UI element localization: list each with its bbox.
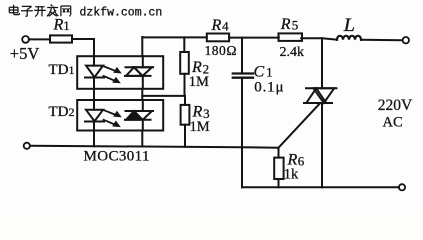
wire triac branch bbox=[321, 38, 323, 88]
wire bbox=[93, 39, 95, 56]
TD1 output triac bbox=[125, 56, 153, 89]
svg-text:+5V: +5V bbox=[10, 44, 40, 63]
resistor R2 bbox=[180, 52, 189, 74]
svg-text:220V: 220V bbox=[378, 97, 413, 114]
wire bbox=[301, 38, 337, 40]
resistor R1 bbox=[50, 35, 72, 42]
svg-text:R4: R4 bbox=[211, 17, 230, 34]
wire R6 top lead bbox=[278, 148, 280, 158]
resistor R4 bbox=[207, 34, 229, 42]
svg-text:180Ω: 180Ω bbox=[205, 43, 238, 58]
svg-text:R5: R5 bbox=[280, 16, 298, 33]
svg-text:MOC3011: MOC3011 bbox=[84, 149, 150, 165]
terminal AC bottom bbox=[399, 184, 405, 190]
wire bottom rail bbox=[242, 186, 399, 188]
TD2 LED bbox=[85, 100, 104, 131]
svg-text:1M: 1M bbox=[190, 119, 210, 135]
svg-text:C1: C1 bbox=[254, 64, 273, 81]
TD1 light arrows bbox=[104, 67, 122, 84]
svg-text:dzkfw.com.cn: dzkfw.com.cn bbox=[80, 6, 163, 19]
子 bbox=[21, 6, 33, 16]
wire bbox=[72, 38, 94, 40]
wire bbox=[361, 39, 403, 41]
wire gate bbox=[279, 104, 320, 148]
TD2 output triac bbox=[125, 100, 153, 131]
wire R2 stub bbox=[183, 37, 185, 52]
resistor R6 bbox=[274, 158, 283, 179]
svg-text:L: L bbox=[343, 16, 355, 36]
TD1 LED bbox=[85, 56, 104, 89]
开 bbox=[34, 7, 46, 17]
wire mid rail bbox=[30, 146, 279, 148]
wire bbox=[229, 37, 279, 39]
svg-text:R1: R1 bbox=[53, 17, 70, 34]
optocoupler TD1 box bbox=[77, 56, 163, 89]
inductor L bbox=[337, 36, 361, 40]
wire TD1-TD2 led link bbox=[93, 89, 95, 100]
resistor R3 bbox=[181, 105, 190, 125]
terminal AC top bbox=[403, 37, 409, 43]
wire top rail bbox=[142, 36, 207, 38]
wire bbox=[29, 38, 50, 40]
watermark logo 电子开发网 bbox=[9, 5, 70, 17]
wire C1 branch upper bbox=[241, 38, 243, 74]
svg-text:0.1μ: 0.1μ bbox=[254, 80, 284, 96]
wire R2 bottom bbox=[184, 74, 186, 96]
wire R3 top lead bbox=[184, 96, 186, 105]
terminal +5V input bbox=[22, 36, 29, 43]
svg-text:1k: 1k bbox=[284, 167, 299, 183]
svg-text:TD1: TD1 bbox=[49, 62, 75, 78]
svg-text:TD2: TD2 bbox=[49, 104, 75, 120]
wire R6 bottom lead bbox=[278, 179, 280, 187]
wire triac cathode bbox=[321, 103, 323, 187]
svg-text:AC: AC bbox=[383, 115, 403, 131]
resistor R5 bbox=[279, 33, 303, 41]
TD2 light arrows bbox=[104, 110, 122, 127]
triac Q1 bbox=[304, 88, 337, 103]
wire TD2 led drop bbox=[93, 131, 95, 147]
网 bbox=[61, 6, 71, 16]
wire TD1-TD2 triac link bbox=[141, 89, 143, 100]
发 bbox=[47, 5, 58, 17]
wire C1 branch lower bbox=[241, 78, 243, 188]
capacitor C1 bbox=[233, 74, 253, 78]
terminal mid left bbox=[24, 143, 30, 149]
svg-text:2.4k: 2.4k bbox=[280, 45, 305, 60]
wire bbox=[141, 37, 143, 56]
wire R3 bottom lead bbox=[184, 125, 186, 147]
wire TD2 triac drop bbox=[141, 131, 143, 147]
电 bbox=[9, 5, 19, 15]
wire bbox=[142, 95, 184, 97]
svg-text:1M: 1M bbox=[189, 74, 209, 90]
optocoupler TD2 box bbox=[77, 100, 163, 131]
